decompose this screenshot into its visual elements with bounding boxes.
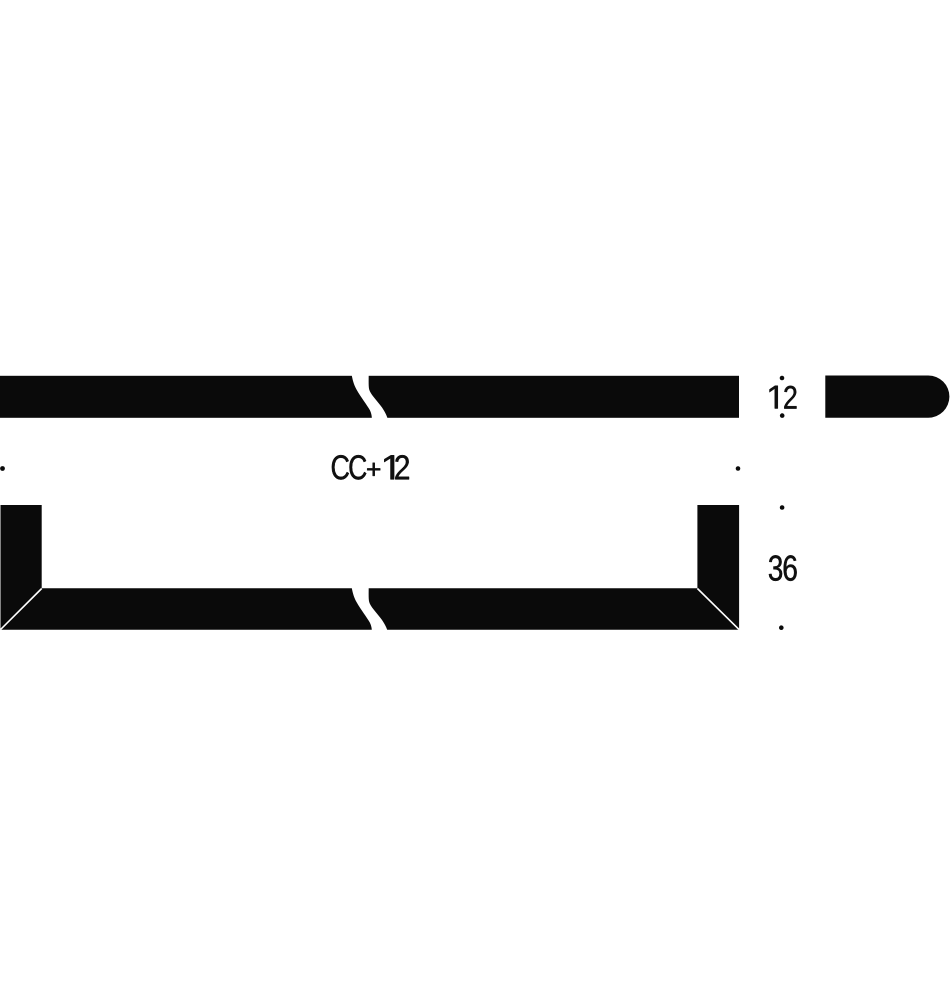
handle front-view silhouette (posts + grip bar) <box>1 505 740 630</box>
handle side-view bar (left section) <box>0 376 739 418</box>
handle end-cap piece (rounded end, side view) <box>825 376 949 418</box>
mitre joint line (right) <box>697 589 739 630</box>
dimension dot (36 bottom) <box>779 625 784 630</box>
break line (front-view bar squiggle) <box>352 587 388 632</box>
dimension dot (CC left) <box>0 466 5 471</box>
dimension dot (36 top) <box>780 505 785 510</box>
dimension dot (CC right) <box>736 466 741 471</box>
dimension dot (12 top) <box>780 376 785 381</box>
mitre joint line (left) <box>1 589 42 630</box>
break line (side-view bar squiggle) <box>352 375 388 420</box>
dimension label CC+12 <box>332 455 409 480</box>
dimension label 12 <box>770 386 797 409</box>
dimension dot (12 bottom) <box>780 413 785 418</box>
dimension label 36 <box>769 555 797 581</box>
